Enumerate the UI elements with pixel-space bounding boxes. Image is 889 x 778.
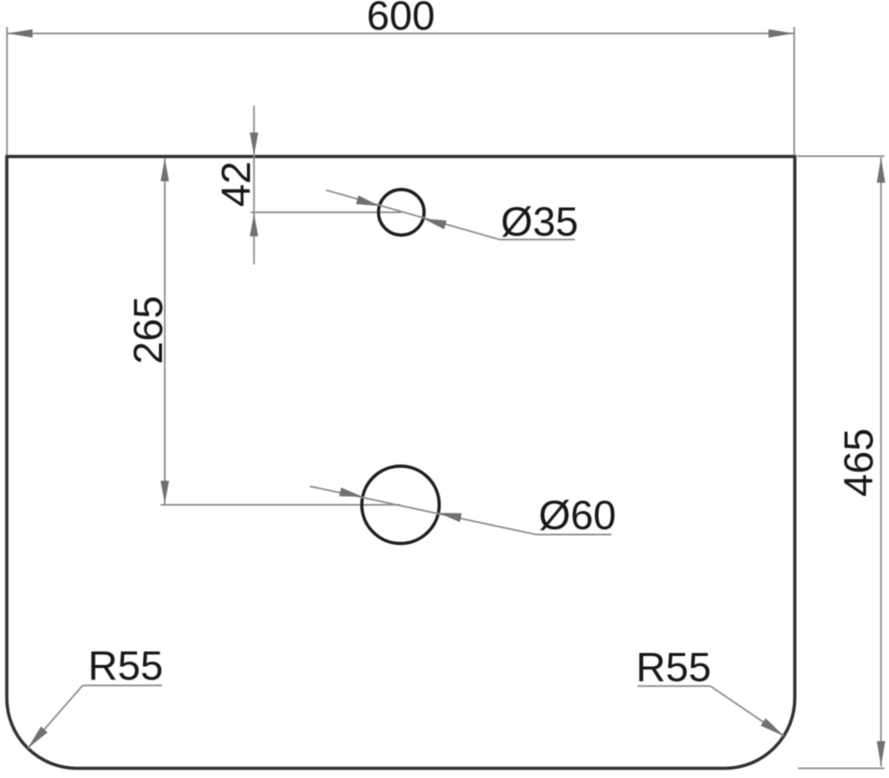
radius R55 left leader (28, 685, 83, 748)
radius R55 right leader (711, 686, 784, 736)
hole H2 leader line (310, 486, 537, 534)
dim 600 line (7, 32, 794, 34)
dim 42 upper arrowhead (250, 133, 258, 156)
dim 42 lower stem (253, 212, 255, 264)
dim 465 extension line bottom (798, 767, 885, 769)
dim 465 arrowhead bottom (877, 741, 885, 766)
dim 465 arrowhead top (877, 158, 885, 183)
hole H2 leader underline (537, 534, 612, 536)
plate outline (7, 157, 795, 769)
hole H1 circle D35 (379, 190, 425, 236)
svg-text:Ø35: Ø35 (501, 199, 579, 245)
dim 600 arrowhead left (8, 29, 33, 37)
dim 465 extension line top (797, 155, 885, 157)
dim 42 vertical line (253, 106, 255, 213)
hole H1 leader arrowhead right (423, 219, 446, 230)
dim 265 arrowhead bottom (161, 481, 169, 504)
svg-text:265: 265 (125, 296, 171, 364)
dim 600 extension line left (6, 27, 8, 155)
svg-text:Ø60: Ø60 (539, 492, 617, 538)
svg-text:R55: R55 (88, 643, 163, 689)
hole H1 leader line (326, 190, 500, 240)
dim 42 horizontal line to hole H1 center (251, 211, 402, 213)
hole H2 circle D60 (362, 466, 439, 543)
radius R55 right underline (637, 685, 710, 687)
svg-text:600: 600 (367, 0, 435, 39)
dim 600 arrowhead right (769, 29, 794, 37)
svg-text:42: 42 (213, 161, 259, 207)
dim 600 extension line right (793, 27, 795, 155)
radius R55 right arrowhead (761, 718, 784, 736)
dim 265 horizontal line to hole H2 center (161, 504, 401, 506)
svg-text:465: 465 (836, 428, 882, 496)
hole H1 leader underline (500, 239, 575, 241)
hole H2 leader arrowhead right (438, 513, 462, 522)
dim 265 vertical line (164, 158, 166, 505)
radius R55 left arrowhead (28, 727, 48, 749)
dim 42 lower arrowhead (250, 213, 258, 236)
dim 265 arrowhead top (161, 158, 169, 181)
radius R55 left underline (83, 684, 162, 686)
hole H1 leader arrowhead left (356, 195, 379, 206)
svg-text:R55: R55 (636, 644, 711, 690)
dim 465 line (880, 158, 882, 767)
hole H2 leader arrowhead left (339, 488, 363, 497)
